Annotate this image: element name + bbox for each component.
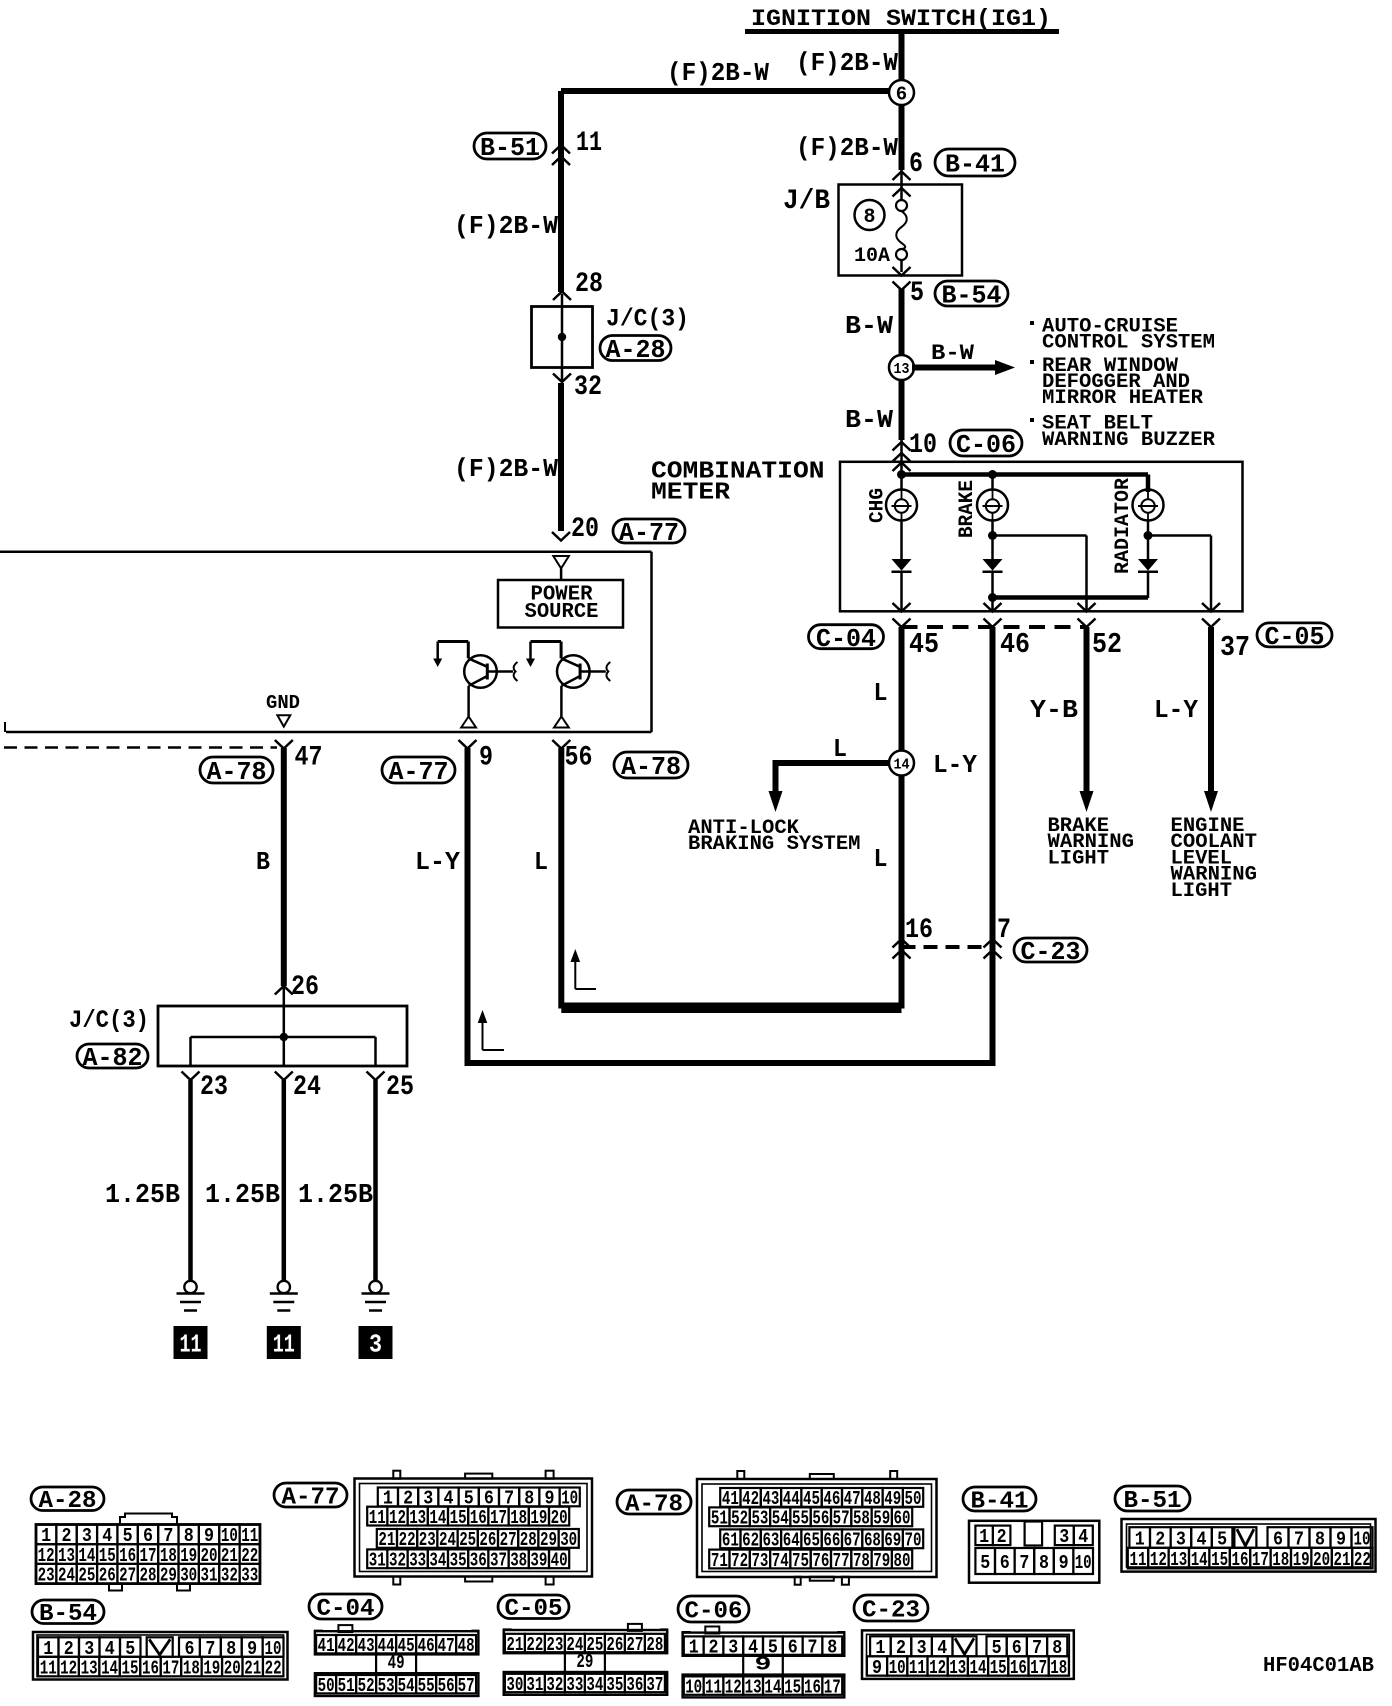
pin number 25 [386, 1072, 414, 1103]
ground wire 23 [188, 1080, 193, 1280]
svg-text:A-28: A-28 [606, 335, 666, 365]
svg-text:2: 2 [997, 1526, 1007, 1548]
svg-text:51: 51 [338, 1675, 355, 1697]
connector table label C-23 [854, 1595, 928, 1624]
branch wire to ABS [776, 763, 895, 793]
svg-text:22: 22 [1354, 1549, 1371, 1571]
wire label B-W upper [845, 311, 893, 341]
svg-text:12: 12 [1150, 1549, 1167, 1571]
wire L-Y 37 down [1208, 627, 1214, 793]
svg-text:(F)2B-W: (F)2B-W [796, 48, 898, 78]
svg-text:C-06: C-06 [685, 1598, 743, 1625]
svg-text:19: 19 [530, 1507, 547, 1529]
svg-text:17: 17 [824, 1676, 841, 1698]
node 13 [889, 355, 914, 380]
wire diode join bus [993, 595, 1149, 600]
svg-text:23: 23 [419, 1529, 436, 1551]
svg-text:79: 79 [873, 1550, 890, 1572]
svg-text:68: 68 [864, 1530, 881, 1552]
svg-text:52: 52 [1092, 628, 1122, 661]
connector label C-04 [809, 624, 884, 654]
svg-text:18: 18 [183, 1657, 200, 1679]
svg-text:57: 57 [833, 1508, 850, 1530]
connector table B-54 [33, 1632, 288, 1680]
svg-text:CONTROL SYSTEM: CONTROL SYSTEM [1042, 332, 1215, 355]
meter exit chevrons 46 [984, 603, 1002, 627]
svg-text:BRAKE: BRAKE [956, 480, 979, 538]
svg-text:53: 53 [378, 1675, 395, 1697]
wire label L-Y mid [415, 847, 460, 877]
svg-text:LIGHT: LIGHT [1048, 847, 1110, 870]
wire label 1.25B left [105, 1181, 180, 1211]
GND label [266, 692, 300, 714]
svg-text:9: 9 [872, 1657, 882, 1679]
svg-text:A-82: A-82 [83, 1043, 143, 1073]
connector table label C-05 [498, 1595, 569, 1623]
connector chevrons B-54 [893, 267, 911, 290]
svg-text:METER: METER [651, 480, 731, 507]
svg-text:51: 51 [711, 1508, 728, 1530]
svg-text:7: 7 [997, 915, 1011, 946]
svg-text:54: 54 [772, 1508, 789, 1530]
pin number 45 [909, 628, 939, 661]
svg-text:15: 15 [990, 1657, 1007, 1679]
svg-text:31: 31 [526, 1674, 543, 1696]
wire label B-W lower [845, 405, 893, 435]
svg-text:14: 14 [429, 1507, 446, 1529]
connector chevron 9 [459, 740, 477, 749]
svg-text:C-06: C-06 [956, 430, 1016, 460]
svg-text:A-77: A-77 [619, 518, 679, 548]
svg-text:17: 17 [1252, 1549, 1269, 1571]
wire L loop run [561, 748, 901, 1006]
pin number 6 B-41 [909, 149, 923, 180]
svg-text:18: 18 [1272, 1549, 1289, 1571]
connector table label C-04 [309, 1594, 382, 1623]
continuation arrow L [571, 949, 597, 989]
combination meter box [840, 462, 1243, 612]
pin number 10 [909, 430, 937, 461]
label J/B [783, 186, 830, 217]
arrowhead brake warning [1080, 791, 1094, 812]
svg-text:B: B [256, 847, 270, 877]
svg-text:55: 55 [418, 1675, 435, 1697]
svg-text:21: 21 [506, 1634, 523, 1656]
svg-text:L: L [874, 678, 888, 708]
svg-text:31: 31 [369, 1550, 386, 1572]
svg-text:30: 30 [560, 1529, 577, 1551]
pin number 11 [576, 128, 602, 159]
junction box J/C(3) A-82 [158, 1006, 407, 1066]
transistor Q1 power source [433, 642, 517, 728]
svg-text:B-41: B-41 [945, 150, 1005, 180]
connector chevron 47 [275, 740, 293, 749]
svg-text:56: 56 [438, 1675, 455, 1697]
svg-text:76: 76 [812, 1550, 829, 1572]
svg-text:29: 29 [576, 1651, 593, 1673]
svg-text:B-54: B-54 [942, 281, 1002, 311]
svg-text:3: 3 [728, 1636, 738, 1658]
svg-text:55: 55 [792, 1508, 809, 1530]
svg-text:37: 37 [490, 1550, 507, 1572]
junction dot A-28 [558, 333, 566, 341]
svg-text:19: 19 [1293, 1549, 1310, 1571]
connector label C-06 [950, 430, 1022, 460]
svg-text:25: 25 [459, 1529, 476, 1551]
connector label C-05 [1257, 622, 1332, 652]
svg-text:B-41: B-41 [971, 1488, 1029, 1515]
wire RADIATOR diode out [1147, 572, 1150, 599]
svg-text:GND: GND [266, 692, 300, 714]
node 6 [889, 80, 914, 106]
pin number 9 [479, 743, 493, 774]
wire label (F)2B-W left [454, 211, 558, 241]
ground wire 25 [373, 1080, 378, 1280]
svg-text:52: 52 [358, 1675, 375, 1697]
svg-text:HF04C01AB: HF04C01AB [1263, 1655, 1374, 1678]
connector table C-05 [504, 1624, 668, 1696]
label engine coolant level warning light [1171, 815, 1258, 903]
connector table C-23 [862, 1630, 1074, 1679]
svg-text:70: 70 [905, 1530, 922, 1552]
wire tap to 37 [1148, 536, 1211, 612]
svg-text:17: 17 [162, 1657, 179, 1679]
svg-text:20: 20 [551, 1507, 568, 1529]
wire label L-Y node right [933, 750, 977, 780]
svg-text:L-Y: L-Y [415, 847, 460, 877]
svg-text:72: 72 [731, 1550, 748, 1572]
svg-text:26: 26 [479, 1529, 496, 1551]
svg-text:A-78: A-78 [207, 757, 267, 787]
diagram code HF04C01AB [1263, 1655, 1374, 1678]
wire label B [256, 847, 270, 877]
ground ref box 11 left [174, 1326, 208, 1360]
svg-text:47: 47 [438, 1635, 455, 1657]
junction chevron 26 [275, 986, 293, 995]
svg-text:20: 20 [571, 514, 599, 545]
diode D1 CHG [892, 559, 912, 572]
pin number 47 [295, 743, 323, 774]
svg-text:1.25B: 1.25B [298, 1181, 373, 1211]
svg-text:WARNING BUZZER: WARNING BUZZER [1042, 429, 1215, 452]
svg-text:J/B: J/B [783, 186, 830, 217]
connector B-51 pin 11 chevrons [552, 145, 570, 165]
connector label A-77 mid [382, 757, 455, 787]
svg-text:C-04: C-04 [816, 624, 876, 654]
connector label B-54 [935, 281, 1008, 311]
svg-text:16: 16 [470, 1507, 487, 1529]
connector table A-28 bottom tabs [109, 1584, 190, 1591]
lamp BRAKE [977, 475, 1008, 521]
svg-text:11: 11 [369, 1507, 386, 1529]
svg-text:48: 48 [458, 1635, 475, 1657]
wire label L-Y right [1154, 695, 1198, 725]
meter exit chevrons 52 [1078, 603, 1096, 627]
svg-text:B-51: B-51 [480, 133, 540, 163]
svg-text:11: 11 [909, 1657, 926, 1679]
connector table label C-06 [678, 1596, 749, 1625]
meter exit chevrons 37 [1202, 603, 1220, 627]
svg-text:57: 57 [458, 1675, 475, 1697]
junction chevron 28 [553, 292, 571, 301]
control unit box outline [0, 552, 652, 732]
svg-text:12: 12 [929, 1657, 946, 1679]
svg-text:56: 56 [812, 1508, 829, 1530]
svg-text:22: 22 [265, 1657, 282, 1679]
connector label A-82 [77, 1043, 148, 1073]
svg-text:45: 45 [909, 628, 939, 661]
svg-text:15: 15 [784, 1676, 801, 1698]
svg-text:10: 10 [909, 430, 937, 461]
wire RADIATOR to tap [1144, 521, 1153, 560]
svg-text:53: 53 [751, 1508, 768, 1530]
svg-text:3: 3 [369, 1330, 382, 1360]
ground symbol 23 [177, 1281, 205, 1311]
svg-text:24: 24 [439, 1529, 456, 1551]
svg-text:13: 13 [81, 1657, 98, 1679]
wire label Y-B [1030, 695, 1078, 725]
svg-text:25: 25 [386, 1072, 414, 1103]
pin number 24 [293, 1072, 321, 1103]
svg-text:10: 10 [685, 1676, 702, 1698]
svg-text:C-05: C-05 [1265, 622, 1325, 652]
svg-text:(F)2B-W: (F)2B-W [454, 211, 558, 241]
svg-text:7: 7 [808, 1636, 818, 1658]
pin number 28 [575, 269, 603, 300]
svg-text:MIRROR HEATER: MIRROR HEATER [1042, 387, 1203, 410]
svg-text:A-78: A-78 [625, 1491, 683, 1518]
svg-text:16: 16 [905, 915, 933, 946]
svg-text:34: 34 [429, 1550, 446, 1572]
svg-text:35: 35 [450, 1550, 467, 1572]
connector table A-77 [355, 1471, 593, 1585]
node 6 branch wire horizontal [561, 88, 902, 94]
ground symbol 25 [362, 1281, 390, 1311]
svg-text:37: 37 [1220, 631, 1250, 664]
connector table A-28 top tab [120, 1514, 177, 1525]
svg-text:66: 66 [823, 1530, 840, 1552]
connector label A-77 top [613, 518, 685, 548]
connector label B-41 [935, 149, 1015, 180]
svg-text:LIGHT: LIGHT [1171, 880, 1233, 903]
connector table label B-51 [1115, 1486, 1190, 1515]
svg-text:16: 16 [1232, 1549, 1249, 1571]
svg-text:36: 36 [626, 1674, 643, 1696]
wire to J/B [900, 170, 903, 201]
svg-text:74: 74 [772, 1550, 789, 1572]
svg-text:11: 11 [273, 1330, 295, 1360]
connector table label A-78 [617, 1490, 691, 1518]
wire label L at node [833, 734, 847, 764]
pin number 46 [1000, 628, 1030, 661]
node 14 [889, 751, 914, 776]
connector table label A-77 [274, 1483, 347, 1511]
svg-text:RADIATOR: RADIATOR [1112, 478, 1135, 574]
connector label B-51 [474, 133, 546, 163]
svg-text:6: 6 [788, 1636, 798, 1658]
svg-text:56: 56 [565, 743, 593, 774]
wire label L mid [534, 847, 548, 877]
wire left branch vertical lower [558, 383, 564, 531]
svg-text:BRAKING SYSTEM: BRAKING SYSTEM [688, 833, 861, 856]
ground wire 24 [282, 1080, 287, 1280]
svg-text:60: 60 [894, 1508, 911, 1530]
connector boundary dashed A-78 left [4, 746, 277, 749]
svg-text:78: 78 [853, 1550, 870, 1572]
svg-text:49: 49 [388, 1652, 405, 1674]
svg-text:42: 42 [338, 1635, 355, 1657]
svg-text:J/C(3): J/C(3) [69, 1006, 149, 1035]
svg-text:13: 13 [949, 1657, 966, 1679]
svg-text:1.25B: 1.25B [105, 1181, 180, 1211]
connector chevrons 16 [893, 939, 911, 959]
svg-text:Y-B: Y-B [1030, 695, 1078, 725]
svg-text:33: 33 [409, 1550, 426, 1572]
svg-text:8: 8 [1039, 1552, 1049, 1574]
svg-text:9: 9 [1059, 1552, 1069, 1574]
ground symbol 24 [270, 1281, 298, 1311]
svg-text:16: 16 [142, 1657, 159, 1679]
wire label (F)2B-W left lower [454, 454, 558, 484]
svg-text:13: 13 [894, 361, 910, 378]
wire into power source [560, 568, 563, 580]
connector table C-06 [683, 1627, 845, 1699]
pin number 5 [910, 278, 924, 309]
svg-text:61: 61 [722, 1530, 739, 1552]
svg-text:10: 10 [1075, 1552, 1092, 1574]
svg-text:8: 8 [863, 206, 875, 229]
svg-text:12: 12 [60, 1657, 77, 1679]
svg-text:11: 11 [705, 1676, 722, 1698]
svg-text:64: 64 [783, 1530, 800, 1552]
connector label A-78 right [614, 752, 688, 782]
svg-text:16: 16 [804, 1676, 821, 1698]
svg-text:22: 22 [399, 1529, 416, 1551]
svg-text:L-Y: L-Y [933, 750, 977, 780]
svg-text:52: 52 [731, 1508, 748, 1530]
connector label C-23 [1014, 937, 1087, 967]
svg-text:IGNITION SWITCH(IG1): IGNITION SWITCH(IG1) [751, 6, 1051, 32]
transistor Q2 power source [526, 642, 610, 728]
svg-text:18: 18 [1050, 1657, 1067, 1679]
ground triangle GND [277, 715, 290, 726]
svg-text:43: 43 [358, 1635, 375, 1657]
connector chevrons B-41 [893, 172, 911, 197]
svg-text:58: 58 [853, 1508, 870, 1530]
ignition switch IG1 label [745, 6, 1059, 32]
svg-text:(F)2B-W: (F)2B-W [667, 58, 769, 88]
connector triangle 20 female [553, 556, 569, 568]
svg-text:B-51: B-51 [1124, 1488, 1182, 1515]
svg-text:1.25B: 1.25B [205, 1181, 280, 1211]
ground ref box 3 [359, 1326, 393, 1360]
svg-text:26: 26 [606, 1634, 623, 1656]
arrowhead engine coolant [1204, 791, 1218, 812]
svg-text:3: 3 [1059, 1526, 1069, 1548]
wire B-W vertical [899, 289, 905, 440]
wire BRAKE diode out [988, 572, 997, 612]
svg-text:46: 46 [1000, 628, 1030, 661]
wire L-Y return run [468, 1060, 993, 1066]
svg-text:B-W: B-W [845, 311, 893, 341]
svg-text:L: L [833, 734, 847, 764]
svg-text:32: 32 [574, 372, 602, 403]
svg-text:73: 73 [751, 1550, 768, 1572]
wire L 45 down [899, 627, 905, 763]
svg-text:2: 2 [709, 1636, 719, 1658]
pin number 26 [291, 972, 319, 1003]
svg-text:69: 69 [884, 1530, 901, 1552]
svg-text:6: 6 [909, 149, 923, 180]
svg-text:SOURCE: SOURCE [525, 601, 599, 624]
svg-text:23: 23 [546, 1634, 563, 1656]
svg-text:8: 8 [827, 1636, 837, 1658]
bullet list systems [1030, 316, 1215, 452]
junction dot A-82 [280, 1033, 288, 1041]
pin number 32 [574, 372, 602, 403]
svg-text:9: 9 [479, 743, 493, 774]
lamp BRAKE label [956, 480, 979, 538]
connector table B-41 [969, 1521, 1099, 1583]
label brake warning light [1048, 815, 1135, 870]
svg-text:16: 16 [1010, 1657, 1027, 1679]
svg-text:67: 67 [844, 1530, 861, 1552]
branch arrow B-W to systems [912, 360, 1015, 375]
svg-text:13: 13 [745, 1676, 762, 1698]
svg-text:29: 29 [540, 1529, 557, 1551]
connector label A-78 left [200, 757, 273, 787]
meter exit chevrons 45 [893, 603, 911, 627]
svg-text:34: 34 [586, 1674, 603, 1696]
fuse 10A [854, 200, 907, 272]
svg-text:10: 10 [889, 1657, 906, 1679]
svg-text:10A: 10A [854, 245, 890, 268]
svg-text:L-Y: L-Y [1154, 695, 1198, 725]
svg-text:A-28: A-28 [39, 1488, 97, 1515]
svg-text:L: L [874, 844, 888, 874]
lamp CHG [886, 475, 917, 521]
wire Y-B 52 down [1084, 627, 1090, 793]
svg-text:14: 14 [101, 1657, 118, 1679]
label J/C(3) lower [69, 1006, 149, 1035]
wire label B-W arrow [931, 341, 975, 366]
svg-text:22: 22 [526, 1634, 543, 1656]
svg-text:20: 20 [224, 1657, 241, 1679]
svg-text:17: 17 [1030, 1657, 1047, 1679]
wire CHG to diode [900, 521, 903, 560]
connector table B-51 [1122, 1519, 1376, 1572]
svg-text:B-W: B-W [931, 341, 975, 366]
svg-text:27: 27 [626, 1634, 643, 1656]
svg-text:B-54: B-54 [39, 1601, 97, 1628]
wire label 1.25B right [298, 1181, 373, 1211]
wire label L lower [874, 844, 888, 874]
svg-text:6: 6 [1000, 1552, 1010, 1574]
svg-text:11: 11 [180, 1330, 202, 1360]
svg-text:28: 28 [520, 1529, 537, 1551]
svg-text:24: 24 [293, 1072, 321, 1103]
svg-text:12: 12 [725, 1676, 742, 1698]
pin number 37 [1220, 631, 1250, 664]
connector boundary dashed C-04 [902, 625, 1087, 629]
svg-text:5: 5 [980, 1552, 990, 1574]
svg-text:L: L [534, 847, 548, 877]
svg-text:13: 13 [409, 1507, 426, 1529]
junction chevron 23 [182, 1072, 200, 1081]
wire label (F)2B-W top left [667, 58, 769, 88]
svg-text:32: 32 [389, 1550, 406, 1572]
svg-text:65: 65 [803, 1530, 820, 1552]
